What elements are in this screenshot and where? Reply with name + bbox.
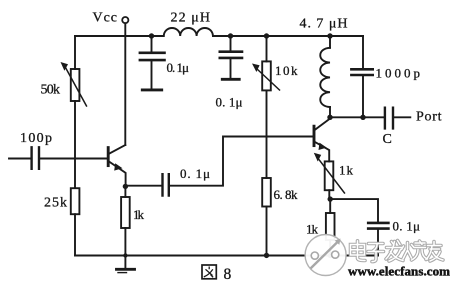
svg-text:Port: Port	[416, 110, 442, 125]
svg-text:0. 1μ: 0. 1μ	[167, 60, 190, 75]
svg-text:0. 1μ: 0. 1μ	[393, 219, 421, 234]
svg-text:Vcc: Vcc	[93, 11, 118, 26]
svg-text:100p: 100p	[20, 131, 52, 146]
svg-text:8: 8	[224, 266, 232, 282]
svg-text:25k: 25k	[44, 196, 67, 211]
svg-text:6. 8k: 6. 8k	[274, 187, 299, 202]
svg-text:1k: 1k	[339, 163, 354, 178]
svg-text:10k: 10k	[275, 63, 298, 78]
svg-text:50k: 50k	[41, 83, 61, 98]
svg-text:1k: 1k	[133, 207, 145, 222]
svg-text:C: C	[383, 132, 392, 147]
svg-text:4. 7 μH: 4. 7 μH	[300, 17, 348, 32]
svg-text:0. 1μ: 0. 1μ	[180, 166, 210, 181]
svg-text:www.elecfans.com: www.elecfans.com	[348, 264, 450, 279]
svg-text:1k: 1k	[306, 222, 319, 237]
svg-text:0. 1μ: 0. 1μ	[216, 95, 243, 110]
